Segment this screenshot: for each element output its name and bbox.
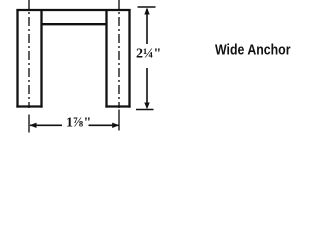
svg-text:Wide Anchor: Wide Anchor	[215, 42, 291, 59]
svg-text:2¼": 2¼"	[136, 47, 161, 62]
svg-text:1⅞": 1⅞"	[66, 116, 91, 131]
